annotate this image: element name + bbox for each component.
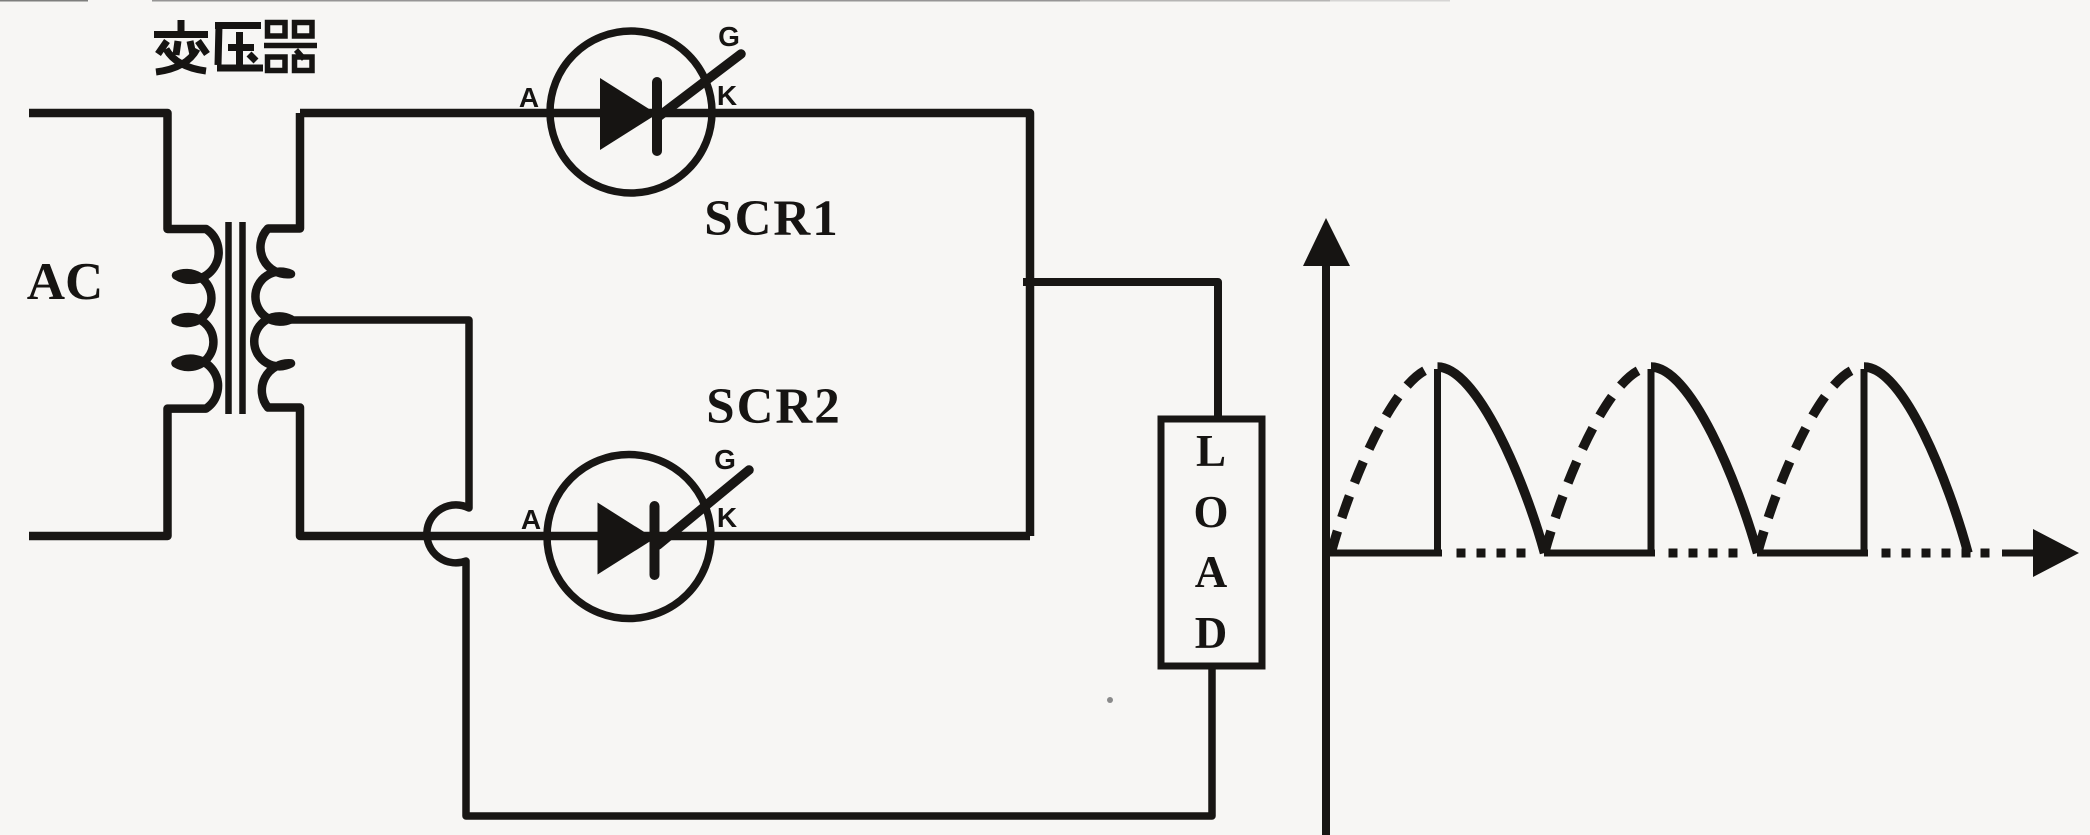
transformer core bbox=[229, 222, 243, 414]
svg-text:SCR1: SCR1 bbox=[704, 191, 840, 247]
wire: center tap, hop over SCR2 wire, bottom return to LOAD bbox=[272, 320, 1212, 816]
glyph 压 bbox=[215, 26, 263, 69]
SCR1 bbox=[519, 21, 840, 247]
svg-text:A: A bbox=[1195, 547, 1228, 597]
svg-text:G: G bbox=[714, 444, 736, 475]
wire: top wire from secondary to SCR1 and down right side bbox=[300, 113, 1030, 536]
SCR2 circle bbox=[547, 455, 711, 619]
hump 1 solid fall bbox=[1438, 367, 1545, 553]
hump 2 dashed rise bbox=[1545, 367, 1652, 553]
hump 3 solid fall bbox=[1864, 367, 1968, 553]
waveform axis dotted segments (square dots) bbox=[1457, 549, 1990, 558]
SCR2 pin labels bbox=[521, 444, 737, 535]
svg-text:L: L bbox=[1196, 426, 1226, 476]
svg-text:AC: AC bbox=[27, 253, 104, 311]
SCR1 cathode bar bbox=[652, 82, 662, 151]
SCR1 pin labels bbox=[519, 21, 740, 113]
SCR1 circle bbox=[550, 31, 712, 193]
glyph 器 bbox=[264, 23, 317, 71]
svg-text:A: A bbox=[519, 82, 539, 113]
hump 2 solid fall bbox=[1651, 367, 1758, 553]
wire: node to LOAD top bbox=[1023, 282, 1218, 419]
SCR2 diode triangle bbox=[598, 503, 655, 575]
label 变压器 (transformer) hand-drawn glyphs bbox=[154, 20, 317, 72]
glyph 变 bbox=[154, 20, 208, 72]
svg-text:K: K bbox=[717, 80, 737, 111]
hump 3 dashed rise bbox=[1758, 367, 1865, 553]
svg-text:D: D bbox=[1195, 608, 1228, 658]
SCR1 gate line bbox=[658, 54, 741, 117]
hump 1 dashed rise bbox=[1331, 367, 1438, 553]
svg-text:A: A bbox=[521, 504, 541, 535]
LOAD box bbox=[1161, 419, 1262, 666]
waveform horizontal axis arrowhead bbox=[2033, 529, 2079, 577]
SCR2 gate line bbox=[658, 470, 749, 545]
waveform vertical axis bbox=[1322, 264, 1330, 835]
svg-text:G: G bbox=[718, 21, 740, 52]
waveform horizontal axis solid segments bbox=[1326, 550, 2038, 557]
svg-text:SCR2: SCR2 bbox=[706, 379, 842, 435]
hump 2 peak line bbox=[1648, 369, 1655, 553]
hump 3 peak line bbox=[1861, 369, 1868, 553]
top crop band bbox=[0, 0, 1450, 2]
waveform vertical axis arrowhead bbox=[1303, 218, 1350, 266]
SCR2 bbox=[521, 379, 842, 619]
SCR2 cathode bar bbox=[650, 506, 660, 575]
hump 1 peak line bbox=[1434, 369, 1441, 553]
wire: AC top terminal + primary winding + AC bottom terminal bbox=[29, 113, 219, 536]
SCR1 diode triangle bbox=[600, 78, 657, 150]
svg-text:O: O bbox=[1193, 487, 1228, 537]
speck artifact bbox=[1107, 697, 1113, 703]
wire: secondary winding top half + bottom half + SCR2 anode wire bbox=[254, 113, 1030, 536]
svg-text:K: K bbox=[717, 502, 737, 533]
